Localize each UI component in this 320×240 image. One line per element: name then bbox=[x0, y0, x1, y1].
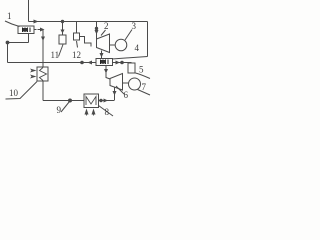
svg-text:6: 6 bbox=[124, 90, 129, 100]
svg-text:12: 12 bbox=[72, 50, 81, 60]
svg-text:11: 11 bbox=[51, 50, 60, 60]
svg-text:10: 10 bbox=[9, 88, 19, 98]
svg-text:1: 1 bbox=[7, 11, 12, 21]
svg-text:3: 3 bbox=[132, 21, 137, 31]
svg-text:7: 7 bbox=[142, 82, 147, 92]
svg-text:9: 9 bbox=[57, 105, 62, 115]
svg-text:4: 4 bbox=[135, 43, 140, 53]
svg-text:2: 2 bbox=[104, 21, 109, 31]
svg-text:8: 8 bbox=[105, 107, 110, 117]
svg-text:5: 5 bbox=[139, 65, 144, 75]
